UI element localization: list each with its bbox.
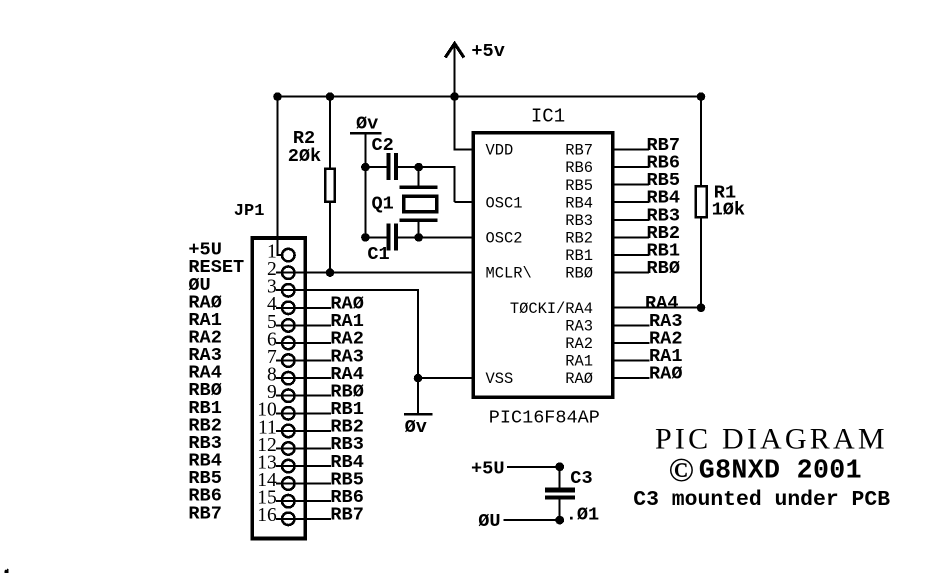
svg-text:PIC DIAGRAM: PIC DIAGRAM — [655, 422, 888, 455]
JP1 pin 8 pad — [282, 372, 295, 385]
svg-text:RB1: RB1 — [565, 247, 593, 265]
svg-text:Øv: Øv — [356, 113, 378, 134]
wire JP1 pin 13 — [276, 465, 331, 467]
svg-text:RA2: RA2 — [565, 335, 593, 353]
node rail-VDD junction — [450, 92, 459, 101]
svg-text:+5U: +5U — [471, 458, 504, 479]
stray mark bottom-left — [5, 569, 9, 573]
wire IC1 RA3 stub — [613, 324, 650, 326]
JP1 pin 1 pad — [282, 249, 295, 262]
JP1 pin 2 pad — [282, 266, 295, 279]
svg-text:RB7: RB7 — [330, 505, 363, 526]
svg-text:2Øk: 2Øk — [288, 146, 321, 167]
svg-text:RA3: RA3 — [565, 317, 593, 335]
capacitor C3 — [545, 488, 575, 493]
wire IC1 RB5 stub — [613, 184, 649, 186]
wire JP1 pin 6 — [276, 342, 331, 344]
svg-text:RAØ: RAØ — [649, 364, 682, 385]
svg-text:RBØ: RBØ — [565, 265, 593, 283]
op-amp U1 : IC1 PIC16F84AP body — [473, 133, 613, 398]
svg-text:RB5: RB5 — [565, 177, 593, 195]
svg-text:RB7: RB7 — [565, 142, 593, 160]
JP1 pin 12 pad — [282, 442, 295, 455]
crystal Q1 — [400, 186, 438, 190]
svg-text:©: © — [669, 452, 694, 489]
node C1-left junction — [361, 233, 370, 242]
wire JP1 pin 8 — [276, 377, 331, 379]
svg-text:RAØ: RAØ — [565, 370, 593, 388]
svg-text:VDD: VDD — [486, 142, 514, 160]
wire JP1 pin 4 — [276, 307, 331, 309]
wire JP1 pin 5 — [276, 324, 331, 326]
svg-text:ØU: ØU — [478, 511, 500, 532]
svg-text:RB4: RB4 — [565, 194, 593, 212]
wire 0v to C2 — [364, 134, 366, 167]
svg-text:C3: C3 — [570, 468, 592, 489]
svg-text:RBØ: RBØ — [647, 258, 680, 279]
wire C3 bottom — [559, 500, 561, 520]
svg-text:JP1: JP1 — [234, 202, 265, 221]
svg-text:RB6: RB6 — [565, 159, 593, 177]
node rail-R1 junction — [697, 92, 706, 101]
wire IC1 RB3 stub — [613, 219, 649, 221]
capacitor C2 — [386, 153, 390, 180]
svg-text:OSC2: OSC2 — [486, 230, 523, 248]
JP1 pin 7 pad — [282, 354, 295, 367]
svg-text:G8NXD 2001: G8NXD 2001 — [699, 456, 862, 486]
svg-text:+5v: +5v — [471, 41, 504, 62]
wire rail to R2 — [329, 97, 331, 168]
node C3 top junction — [555, 462, 564, 471]
wire IC1 RBØ stub — [613, 272, 649, 274]
wire C2-left to C1-left — [364, 167, 366, 237]
wire IC1 RB6 stub — [613, 166, 649, 168]
wire 0V to C3 — [503, 519, 559, 521]
node C3 bottom junction — [555, 516, 564, 525]
wire IC1 RA2 stub — [613, 342, 650, 344]
svg-text:C2: C2 — [372, 135, 394, 156]
JP1 pin 14 pad — [282, 477, 295, 490]
node R2-MCLR junction — [326, 268, 335, 277]
wire JP1 pin 14 — [276, 483, 331, 485]
ground 0v symbol — [417, 378, 419, 413]
wire JP1 pin 9 — [276, 395, 331, 397]
wire C1 net to OSC2 pin — [419, 236, 472, 238]
svg-text:PIC16F84AP: PIC16F84AP — [489, 408, 600, 429]
power +5v arrow symbol — [454, 44, 456, 97]
node rail-JP1 junction — [273, 92, 282, 101]
node C2-left junction — [361, 163, 370, 172]
wire 0V net to VSS pin — [418, 377, 472, 379]
wire JP1 pin 10 — [276, 412, 331, 414]
svg-text:IC1: IC1 — [531, 105, 565, 127]
svg-text:Q1: Q1 — [372, 194, 394, 215]
wire IC1 RB1 stub — [613, 254, 649, 256]
wire JP1 pin2 RESET to MCLR pin — [276, 272, 472, 274]
wire +5V top rail — [277, 96, 703, 98]
wire C1 left plate — [365, 236, 386, 238]
wire JP1 pin 15 — [276, 500, 331, 502]
svg-text:Øv: Øv — [405, 417, 427, 438]
wire R1 to RA4 net — [700, 218, 702, 307]
JP1 pin 11 pad — [282, 425, 295, 438]
svg-text:.Ø1: .Ø1 — [566, 505, 599, 526]
wire IC1 RB7 stub — [613, 149, 649, 151]
svg-text:C1: C1 — [367, 244, 389, 265]
connector JP1 body — [252, 238, 305, 538]
wire IC1 RAØ stub — [613, 377, 650, 379]
wire IC1 RA1 stub — [613, 360, 650, 362]
JP1 pin 15 pad — [282, 495, 295, 508]
wire rail to VDD pin — [454, 97, 456, 151]
svg-text:RB3: RB3 — [565, 212, 593, 230]
svg-text:MCLR\: MCLR\ — [486, 265, 532, 283]
JP1 pin 5 pad — [282, 319, 295, 332]
wire rail to JP1 pin 1 — [277, 97, 279, 255]
JP1 pin 13 pad — [282, 460, 295, 473]
wire C2 net to Q1 top — [418, 167, 420, 185]
capacitor C1 — [386, 224, 390, 251]
wire 0v-net to C2 left plate — [365, 166, 386, 168]
node 0V-VSS junction — [414, 374, 423, 383]
wire IC1 RA4 to R1 — [613, 307, 701, 309]
wire JP1 pin 7 — [276, 360, 331, 362]
node RA4-R1 junction — [697, 303, 706, 312]
svg-text:RB7: RB7 — [188, 503, 221, 524]
resistor R2 — [325, 169, 335, 202]
svg-text:OSC1: OSC1 — [486, 194, 523, 212]
node C2-Q1 junction — [414, 163, 423, 172]
wire R2 to MCLR net — [329, 203, 331, 273]
wire JP1 pin 16 — [276, 518, 331, 520]
wire C1 right plate to OSC2 junction — [398, 236, 419, 238]
svg-text:RA1: RA1 — [565, 353, 593, 371]
JP1 pin 3 pad — [282, 284, 295, 297]
wire IC1 RB2 stub — [613, 236, 649, 238]
svg-text:RB2: RB2 — [565, 230, 593, 248]
svg-text:TØCKI/RA4: TØCKI/RA4 — [510, 300, 593, 318]
svg-text:1Øk: 1Øk — [712, 199, 745, 220]
JP1 pin 16 pad — [282, 513, 295, 526]
JP1 pin 6 pad — [282, 337, 295, 350]
wire JP1 pin 11 — [276, 430, 331, 432]
wire +5V to C3 — [507, 466, 560, 468]
JP1 pin 9 pad — [282, 389, 295, 402]
svg-text:16: 16 — [257, 505, 277, 526]
wire JP1 pin3 0V rail — [276, 289, 419, 291]
resistor R1 — [696, 186, 707, 217]
node rail-R2 junction — [326, 92, 335, 101]
wire rail to R1 — [700, 97, 702, 185]
node C1-Q1 junction — [414, 233, 423, 242]
svg-text:C3 mounted under PCB: C3 mounted under PCB — [633, 488, 890, 512]
wire C2 right plate to OSC1 net — [398, 166, 419, 168]
wire Q1 bottom to C1 net — [418, 222, 420, 237]
JP1 pin 4 pad — [282, 302, 295, 315]
wire C2 net jog to OSC1 pin — [419, 166, 456, 168]
svg-text:VSS: VSS — [486, 370, 514, 388]
wire IC1 RB4 stub — [613, 201, 649, 203]
JP1 pin 10 pad — [282, 407, 295, 420]
wire JP1 pin 12 — [276, 448, 331, 450]
